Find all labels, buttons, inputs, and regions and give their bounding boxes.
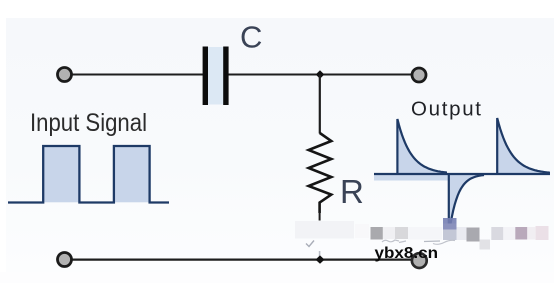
output waveform lobe 2 trace — [497, 118, 550, 174]
output waveform lobe 1 trace — [397, 119, 447, 174]
wire top horizontal — [71, 74, 412, 76]
svg-text:Input Signal: Input Signal — [30, 109, 147, 137]
input square wave pulse 2 fill — [114, 146, 150, 202]
output terminal (top right) — [412, 68, 426, 82]
wire from junction down to resistor — [319, 75, 321, 134]
bottom-right terminal — [412, 253, 427, 268]
output waveform lobe 1 fill — [397, 119, 447, 174]
bottom rail wire — [71, 259, 413, 261]
capacitor C1 left plate — [203, 47, 208, 106]
svg-text:C: C — [240, 20, 262, 55]
output waveform negative lobe trace — [449, 174, 484, 226]
resistor R1 zigzag — [309, 133, 332, 213]
watermark scribbles — [382, 240, 399, 242]
output waveform baseline — [374, 173, 550, 175]
output waveform blue band under baseline — [374, 175, 449, 181]
output waveform negative lobe fill — [449, 174, 484, 226]
input terminal (top left) — [58, 68, 72, 82]
capacitor C1 right plate — [223, 47, 228, 106]
input square wave trace — [8, 146, 169, 203]
node junction top (wire to resistor) — [316, 70, 325, 79]
node junction bottom rail — [316, 255, 325, 263]
svg-text:R: R — [340, 173, 364, 210]
bottom-left terminal — [58, 253, 72, 267]
wire resistor bottom to bottom rail — [319, 212, 321, 221]
faint wire remnant above bottom junction — [319, 251, 321, 258]
input square wave pulse 1 fill — [43, 146, 79, 202]
svg-text:ybx8.cn: ybx8.cn — [375, 245, 439, 262]
svg-text:Output: Output — [411, 98, 481, 121]
capacitor C1 dielectric fill — [208, 47, 224, 105]
output waveform lobe 2 fill — [497, 118, 550, 174]
watermark mosaic row — [295, 221, 354, 239]
